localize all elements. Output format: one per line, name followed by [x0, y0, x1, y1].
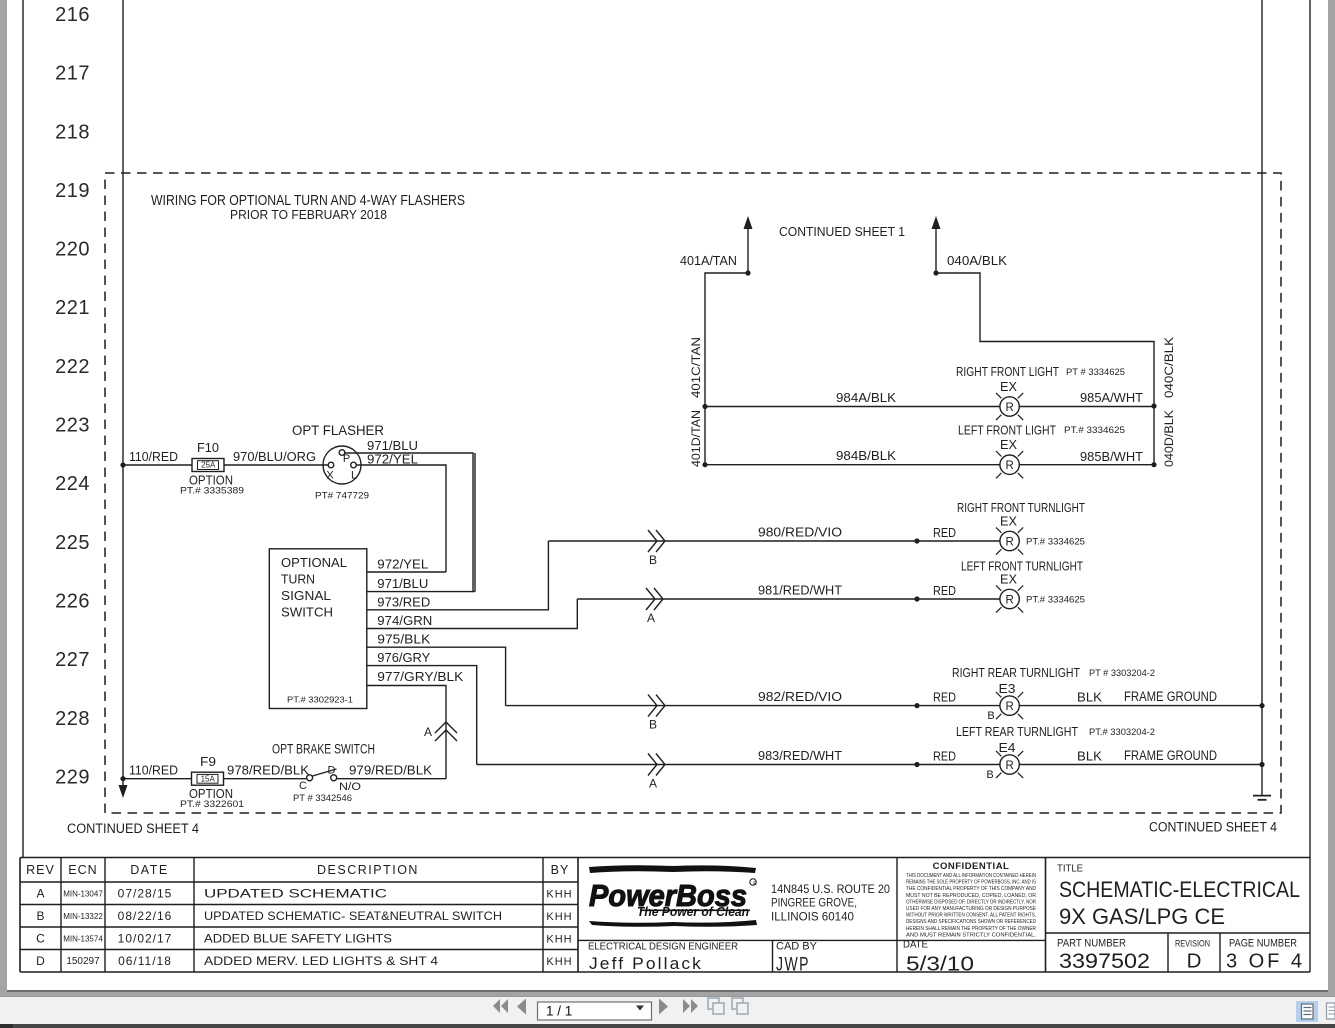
svg-text:15A: 15A [201, 774, 216, 783]
lamp E3 right rear turnlight [1000, 696, 1019, 715]
node splice row2 [914, 596, 919, 601]
svg-text:R: R [753, 881, 757, 887]
svg-text:226: 226 [55, 591, 90, 613]
svg-text:150297: 150297 [66, 956, 100, 967]
wire 974/GRN [367, 599, 577, 629]
node 401A junction [745, 270, 750, 275]
svg-text:BLK: BLK [1077, 749, 1102, 764]
fuse F10 25A [192, 459, 224, 472]
svg-text:F10: F10 [197, 441, 219, 455]
svg-text:Jeff Pollack: Jeff Pollack [589, 955, 703, 973]
svg-text:DATE: DATE [903, 939, 928, 951]
svg-text:10/02/17: 10/02/17 [118, 932, 173, 946]
svg-text:B: B [36, 909, 44, 923]
node splice row4 [914, 762, 919, 767]
svg-text:EX: EX [1000, 573, 1018, 587]
brake switch pin D [331, 775, 337, 781]
svg-text:ILLINOIS 60140: ILLINOIS 60140 [771, 912, 854, 924]
svg-text:224: 224 [55, 473, 90, 495]
svg-text:401A/TAN: 401A/TAN [680, 253, 737, 268]
svg-text:E4: E4 [999, 741, 1016, 755]
svg-text:UPDATED SCHEMATIC: UPDATED SCHEMATIC [204, 887, 387, 901]
connector break A on 977 wire [435, 722, 457, 733]
svg-text:984A/BLK: 984A/BLK [836, 390, 896, 405]
svg-text:222: 222 [55, 356, 90, 378]
svg-text:OTHERWISE DISPOSED OF, DIRECTL: OTHERWISE DISPOSED OF, DIRECTLY OR INDIR… [906, 899, 1036, 905]
svg-text:KHH: KHH [546, 911, 572, 923]
svg-text:SCHEMATIC-ELECTRICAL: SCHEMATIC-ELECTRICAL [1059, 877, 1300, 902]
svg-text:228: 228 [55, 708, 90, 730]
wire 976/GRY [367, 666, 477, 765]
connector break B row3 [648, 695, 657, 717]
svg-text:PT.# 3302923-1: PT.# 3302923-1 [287, 695, 353, 705]
wire 978/RED/BLK [224, 778, 307, 780]
svg-text:982/RED/VIO: 982/RED/VIO [758, 689, 842, 704]
svg-text:WITHOUT PRIOR WRITTEN CONSENT.: WITHOUT PRIOR WRITTEN CONSENT. ALL PATEN… [906, 913, 1036, 919]
svg-text:R: R [1005, 460, 1013, 472]
wire 985A/WHT [1019, 406, 1154, 408]
wire 040A/BLK to 040C vertical [936, 273, 1154, 465]
svg-text:LEFT REAR TURNLIGHT: LEFT REAR TURNLIGHT [956, 724, 1078, 739]
svg-text:FRAME GROUND: FRAME GROUND [1124, 748, 1217, 763]
svg-text:CONTINUED SHEET 4: CONTINUED SHEET 4 [67, 821, 199, 836]
svg-text:P: P [343, 453, 350, 465]
node 040A junction [933, 270, 938, 275]
svg-text:PT # 3342546: PT # 3342546 [293, 793, 352, 804]
svg-text:B: B [649, 553, 657, 567]
svg-text:UPDATED SCHEMATIC- SEAT&NEUTRA: UPDATED SCHEMATIC- SEAT&NEUTRAL SWITCH [204, 909, 502, 923]
svg-text:D: D [36, 954, 45, 968]
svg-text:985B/WHT: 985B/WHT [1080, 449, 1143, 464]
svg-text:14N845 U.S. ROUTE 20: 14N845 U.S. ROUTE 20 [771, 884, 890, 896]
svg-text:PART NUMBER: PART NUMBER [1057, 938, 1126, 950]
svg-text:973/RED: 973/RED [377, 594, 430, 609]
wire 401A/TAN to 401C vertical [705, 273, 748, 465]
svg-text:The Power of Clean: The Power of Clean [637, 905, 749, 919]
svg-text:040D/BLK: 040D/BLK [1162, 410, 1176, 467]
wire 971/BLU from flasher P [345, 453, 473, 592]
off-sheet connector arrow 040A/BLK to sheet 1 [935, 228, 937, 273]
svg-text:KHH: KHH [546, 934, 572, 946]
svg-text:PAGE NUMBER: PAGE NUMBER [1229, 938, 1297, 950]
wire 982/RED/VIO [506, 705, 1000, 707]
svg-text:PT.# 3334625: PT.# 3334625 [1026, 537, 1085, 548]
svg-text:DATE: DATE [130, 863, 168, 877]
svg-text:B: B [986, 769, 993, 781]
svg-text:HEREIN SHALL REMAIN THE PROPER: HEREIN SHALL REMAIN THE PROPERTY OF THE … [906, 926, 1036, 932]
wire 110/RED to F10 [123, 464, 192, 466]
svg-text:220: 220 [55, 239, 90, 261]
svg-text:B: B [987, 710, 994, 722]
svg-text:CAD BY: CAD BY [776, 941, 818, 953]
svg-text:ECN: ECN [68, 863, 97, 877]
node 040 at right front light row [1151, 403, 1156, 408]
svg-text:THE CONFIDENTIAL PROPERTY OF T: THE CONFIDENTIAL PROPERTY OF THIS COMPAN… [906, 886, 1036, 892]
node splice row1 [914, 538, 919, 543]
svg-text:PT.# 3334625: PT.# 3334625 [1064, 425, 1125, 436]
svg-text:ADDED MERV. LED LIGHTS & SHT 4: ADDED MERV. LED LIGHTS & SHT 4 [204, 954, 438, 968]
svg-text:RED: RED [933, 583, 956, 598]
svg-text:SWITCH: SWITCH [281, 605, 333, 620]
svg-text:978/RED/BLK: 978/RED/BLK [227, 763, 309, 778]
svg-text:PT # 3303204-2: PT # 3303204-2 [1089, 668, 1155, 679]
svg-text:MIN-13047: MIN-13047 [63, 890, 103, 899]
toolbar two-page-view button (clipped) [1327, 1003, 1335, 1019]
svg-text:040A/BLK: 040A/BLK [947, 253, 1007, 268]
node rail to F10 [120, 462, 125, 467]
svg-text:F9: F9 [200, 755, 216, 769]
svg-text:R: R [1005, 701, 1013, 713]
svg-text:976/GRY: 976/GRY [377, 650, 430, 665]
svg-text:AND MUST REMAIN STRICTLY CONFI: AND MUST REMAIN STRICTLY CONFIDENTIAL. [906, 932, 1036, 938]
svg-text:401D/TAN: 401D/TAN [689, 410, 703, 467]
lamp right front light EX [1000, 397, 1019, 416]
svg-text:REMAINS THE SOLE PROPERTY OF P: REMAINS THE SOLE PROPERTY OF POWERBOSS, … [906, 880, 1036, 886]
svg-text:CONTINUED SHEET 1: CONTINUED SHEET 1 [779, 224, 905, 239]
wire 975/BLK [367, 647, 506, 705]
svg-text:MIN-13322: MIN-13322 [63, 912, 103, 921]
brake switch lever [313, 769, 337, 776]
svg-text:EX: EX [1000, 515, 1018, 529]
svg-text:229: 229 [55, 766, 90, 788]
toolbar next-page button [659, 999, 668, 1015]
lamp left front turnlight EX [1000, 589, 1019, 608]
wire frame ground net (vertical) [1261, 0, 1263, 796]
svg-text:PRIOR TO FEBRUARY 2018: PRIOR TO FEBRUARY 2018 [230, 207, 387, 222]
node splice row3 [914, 703, 919, 708]
svg-text:221: 221 [55, 297, 90, 319]
svg-text:TURN: TURN [281, 572, 315, 587]
svg-text:401C/TAN: 401C/TAN [689, 337, 703, 398]
svg-text:USED FOR ANY MANUFACTURING OR: USED FOR ANY MANUFACTURING OR DESIGN PUR… [906, 906, 1036, 912]
svg-text:C: C [299, 780, 307, 792]
svg-text:981/RED/WHT: 981/RED/WHT [758, 583, 842, 598]
svg-text:971/BLU: 971/BLU [377, 576, 428, 591]
svg-text:X: X [326, 470, 334, 482]
wire 983/RED/WHT [477, 764, 1000, 766]
wire BLK to frame ground row3 [1019, 705, 1262, 707]
svg-text:977/GRY/BLK: 977/GRY/BLK [377, 669, 463, 684]
svg-text:ADDED BLUE SAFETY LIGHTS: ADDED BLUE SAFETY LIGHTS [204, 932, 392, 946]
svg-text:110/RED: 110/RED [129, 449, 178, 464]
wire 981/RED/WHT [577, 598, 1000, 600]
svg-text:THIS DOCUMENT AND ALL INFORMAT: THIS DOCUMENT AND ALL INFORMATION CONTAI… [906, 873, 1036, 879]
svg-text:A: A [649, 777, 657, 791]
svg-text:PT # 3334625: PT # 3334625 [1066, 367, 1125, 378]
connector break B row1 [648, 530, 657, 552]
svg-text:217: 217 [55, 63, 90, 85]
wire 985B/WHT [1019, 464, 1154, 466]
svg-text:3397502: 3397502 [1059, 949, 1150, 973]
svg-text:REV: REV [26, 863, 55, 877]
svg-text:DESIGNS AND SPECIFICATIONS SHO: DESIGNS AND SPECIFICATIONS SHOWN OR REFE… [906, 919, 1036, 925]
toolbar last-page button [683, 999, 698, 1013]
wire BLK to frame ground row4 [1019, 764, 1262, 766]
svg-text:EX: EX [1000, 438, 1018, 452]
svg-text:DESCRIPTION: DESCRIPTION [317, 863, 419, 877]
svg-text:RIGHT REAR TURNLIGHT: RIGHT REAR TURNLIGHT [952, 665, 1080, 680]
svg-text:040C/BLK: 040C/BLK [1162, 337, 1176, 398]
connector break A row4 [648, 754, 657, 776]
toolbar rotate-ccw button [708, 998, 724, 1014]
svg-text:PT.# 3335389: PT.# 3335389 [180, 486, 244, 496]
svg-text:CONTINUED SHEET 4: CONTINUED SHEET 4 [1149, 820, 1277, 835]
svg-text:CONFIDENTIAL: CONFIDENTIAL [933, 861, 1010, 872]
lamp left front light EX [1000, 455, 1019, 474]
node 040 at left front light row [1151, 462, 1156, 467]
svg-text:KHH: KHH [546, 956, 572, 968]
svg-text:C: C [36, 932, 45, 946]
svg-text:1 / 1: 1 / 1 [546, 1004, 572, 1019]
svg-text:A: A [424, 725, 432, 739]
wire 984A/BLK [705, 406, 1000, 408]
switch OPTIONAL TURN SIGNAL SWITCH body [269, 549, 367, 709]
svg-text:RIGHT FRONT TURNLIGHT: RIGHT FRONT TURNLIGHT [957, 500, 1085, 515]
svg-text:5/3/10: 5/3/10 [906, 954, 974, 976]
svg-text:06/11/18: 06/11/18 [118, 954, 172, 968]
flasher pin P [339, 450, 345, 456]
svg-text:RIGHT FRONT LIGHT: RIGHT FRONT LIGHT [956, 364, 1059, 379]
svg-text:983/RED/WHT: 983/RED/WHT [758, 748, 842, 763]
flasher OPT FLASHER body [323, 446, 361, 484]
svg-text:D: D [328, 765, 336, 777]
svg-text:RED: RED [933, 749, 956, 764]
svg-text:R: R [1005, 402, 1013, 414]
svg-text:08/22/16: 08/22/16 [118, 909, 173, 923]
svg-text:MUST NOT BE REPRODUCED, COPIED: MUST NOT BE REPRODUCED, COPIED, LOANED, … [906, 893, 1036, 899]
svg-text:RED: RED [933, 525, 956, 540]
svg-text:RED: RED [933, 690, 956, 705]
svg-text:PT# 747729: PT# 747729 [315, 491, 369, 502]
svg-text:LEFT FRONT LIGHT: LEFT FRONT LIGHT [958, 423, 1056, 438]
svg-text:B: B [649, 718, 657, 732]
wire 110/RED rail (vertical) [122, 0, 124, 791]
lamp right front turnlight EX [1000, 531, 1019, 550]
svg-text:SIGNAL: SIGNAL [281, 588, 331, 603]
svg-text:FRAME GROUND: FRAME GROUND [1124, 689, 1217, 704]
node 401 at left front light row [702, 462, 707, 467]
wire 980/RED/VIO [548, 540, 1000, 542]
svg-text:225: 225 [55, 532, 90, 554]
lamp E4 left rear turnlight [1000, 755, 1019, 774]
title block frame [20, 857, 1310, 859]
node frame ground row4 [1259, 762, 1264, 767]
flasher pin L [351, 462, 357, 468]
svg-text:PINGREE GROVE,: PINGREE GROVE, [771, 898, 857, 910]
svg-text:979/RED/BLK: 979/RED/BLK [349, 763, 432, 778]
ground symbol [1253, 795, 1271, 797]
svg-text:970/BLU/ORG: 970/BLU/ORG [233, 449, 316, 464]
svg-text:BY: BY [551, 863, 570, 877]
flasher pin X [328, 462, 334, 468]
svg-text:218: 218 [55, 121, 90, 143]
svg-text:972/YEL: 972/YEL [367, 452, 418, 467]
toolbar page number input [538, 1002, 652, 1020]
svg-text:223: 223 [55, 415, 90, 437]
svg-text:219: 219 [55, 180, 90, 202]
svg-text:R: R [1005, 595, 1013, 607]
wire 979/RED/BLK [337, 778, 446, 780]
svg-text:A: A [647, 611, 655, 625]
svg-text:227: 227 [55, 649, 90, 671]
svg-text:PT.# 3334625: PT.# 3334625 [1026, 595, 1085, 606]
svg-text:975/BLK: 975/BLK [377, 632, 430, 647]
wire 971/BLU switch to flasher [367, 591, 475, 593]
toolbar rotate-cw button [732, 998, 748, 1014]
toolbar prev-page button [517, 999, 526, 1015]
wire 110/RED to F9 [123, 778, 192, 780]
svg-text:EX: EX [1000, 380, 1018, 394]
svg-text:N/O: N/O [339, 781, 361, 793]
svg-text:R: R [1005, 537, 1013, 549]
svg-text:OPTIONAL: OPTIONAL [281, 555, 347, 570]
svg-text:R: R [1005, 760, 1013, 772]
svg-text:D: D [1187, 950, 1202, 973]
wire 977/GRY/BLK [367, 686, 446, 779]
toolbar single-page-view button (active) [1296, 1001, 1318, 1022]
wire 972/YEL from flasher L [356, 465, 446, 572]
node frame ground row3 [1259, 703, 1264, 708]
svg-text:3 OF 4: 3 OF 4 [1226, 950, 1305, 973]
svg-text:ELECTRICAL DESIGN ENGINEER: ELECTRICAL DESIGN ENGINEER [588, 941, 738, 953]
toolbar first-page button [493, 999, 508, 1013]
svg-text:A: A [36, 887, 44, 901]
svg-text:OPT BRAKE SWITCH: OPT BRAKE SWITCH [272, 742, 375, 757]
svg-text:L: L [351, 470, 357, 482]
svg-text:980/RED/VIO: 980/RED/VIO [758, 525, 842, 540]
svg-text:TITLE: TITLE [1057, 864, 1083, 875]
svg-text:KHH: KHH [546, 889, 572, 901]
svg-text:974/GRN: 974/GRN [377, 613, 432, 628]
svg-text:MIN-13574: MIN-13574 [63, 935, 103, 944]
svg-text:25A: 25A [201, 461, 216, 470]
wire 984B/BLK [705, 464, 1000, 466]
svg-text:07/28/15: 07/28/15 [118, 887, 173, 901]
wire 973/RED [367, 541, 548, 610]
svg-text:984B/BLK: 984B/BLK [836, 448, 896, 463]
wire 970/BLU/ORG [224, 464, 328, 466]
svg-text:E3: E3 [999, 682, 1016, 696]
fuse F9 15A [192, 772, 224, 785]
svg-text:PT.# 3303204-2: PT.# 3303204-2 [1089, 727, 1155, 738]
svg-text:BLK: BLK [1077, 690, 1102, 705]
connector break A row2 [646, 588, 655, 610]
brake switch pin C [307, 775, 313, 781]
svg-text:110/RED: 110/RED [129, 763, 178, 778]
off-sheet connector arrow 401A/TAN to sheet 1 [747, 228, 749, 273]
svg-text:REVISION: REVISION [1175, 939, 1210, 950]
svg-text:985A/WHT: 985A/WHT [1080, 390, 1143, 405]
svg-text:OPT FLASHER: OPT FLASHER [292, 423, 384, 438]
svg-text:972/YEL: 972/YEL [377, 557, 428, 572]
svg-text:216: 216 [55, 4, 90, 26]
svg-text:JWP: JWP [776, 955, 810, 976]
node 401 at right front light row [702, 404, 707, 409]
svg-text:9X GAS/LPG CE: 9X GAS/LPG CE [1059, 904, 1225, 929]
svg-text:LEFT FRONT TURNLIGHT: LEFT FRONT TURNLIGHT [961, 559, 1083, 574]
svg-text:PT.# 3322601: PT.# 3322601 [180, 799, 244, 809]
node rail to F9 [120, 776, 125, 781]
wire 972/YEL switch to flasher [367, 571, 446, 573]
